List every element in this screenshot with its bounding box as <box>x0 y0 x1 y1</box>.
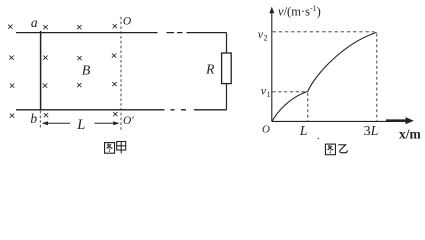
svg-text:O: O <box>262 124 270 136</box>
svg-text:O′: O′ <box>123 115 134 127</box>
svg-text:b: b <box>30 111 37 126</box>
svg-text:×: × <box>42 20 49 34</box>
svg-text:2: 2 <box>264 33 268 42</box>
svg-text:3L: 3L <box>364 124 379 139</box>
svg-text:×: × <box>111 77 118 91</box>
svg-text:×: × <box>76 20 83 34</box>
svg-text:×: × <box>9 78 16 92</box>
svg-text:×: × <box>111 49 118 63</box>
svg-text:a: a <box>31 15 38 30</box>
svg-text:B: B <box>82 63 91 78</box>
svg-text:O: O <box>123 16 132 28</box>
svg-text:×: × <box>7 20 14 34</box>
svg-text:×: × <box>42 51 49 65</box>
svg-text:×: × <box>9 108 16 122</box>
svg-text:×: × <box>8 51 15 65</box>
svg-text:x/m: x/m <box>399 127 422 142</box>
svg-text:×: × <box>76 78 83 92</box>
svg-text:R: R <box>205 62 215 77</box>
svg-text:L: L <box>76 117 85 133</box>
svg-text:×: × <box>112 107 119 121</box>
svg-text:1: 1 <box>267 90 271 99</box>
svg-text:L: L <box>299 124 308 139</box>
svg-text:×: × <box>43 108 50 122</box>
svg-text:×: × <box>42 79 49 93</box>
svg-text:×: × <box>111 19 118 33</box>
